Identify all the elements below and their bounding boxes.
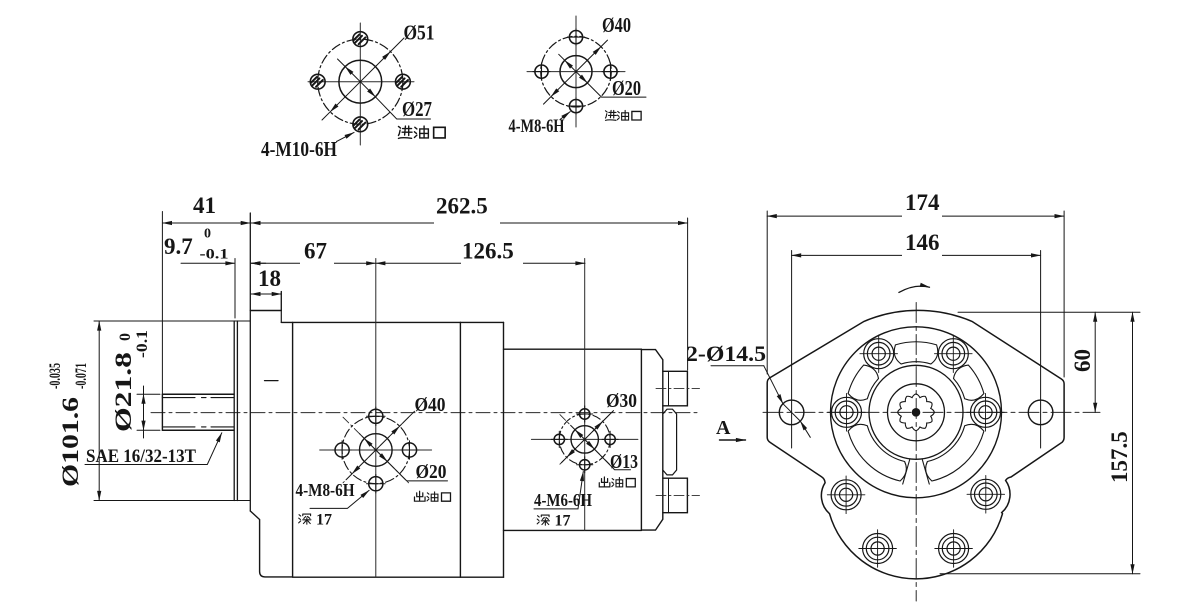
front boss circle xyxy=(869,365,963,459)
dim 146 line xyxy=(792,254,1041,256)
svg-text:4-M6-6H: 4-M6-6H xyxy=(534,490,592,510)
screw S6 bottom-right xyxy=(967,476,1005,514)
port1 port circle Ø20 xyxy=(360,434,393,467)
flange1 bolt hole left xyxy=(310,74,325,89)
flange1 port circle Ø27 xyxy=(339,60,382,103)
svg-text:Ø21.8: Ø21.8 xyxy=(111,352,136,432)
svg-text:60: 60 xyxy=(1070,349,1095,372)
ext lines 174 xyxy=(767,211,1064,377)
dim Ø21.8: extension lines xyxy=(137,394,160,430)
flange1 bolt hole right xyxy=(396,74,411,89)
port2 Ø30 diameter line NE-SW xyxy=(567,421,603,457)
flange2 Ø20 diameter line (NW-SE diagonal) xyxy=(565,60,588,83)
spline leader line xyxy=(85,433,222,465)
flange2 bolt hole top xyxy=(568,29,585,46)
port1 vertical centerline xyxy=(375,259,377,578)
dim text Ø21.8 with tolerance (rotated) xyxy=(111,330,151,432)
svg-text:146: 146 xyxy=(905,230,940,255)
svg-text:4-M8-6H: 4-M8-6H xyxy=(296,480,355,500)
shaft end face xyxy=(161,394,163,430)
mounting plate left face xyxy=(249,213,251,511)
svg-text:262.5: 262.5 xyxy=(436,194,488,219)
mounting plate top edge xyxy=(250,310,281,312)
front bore circle xyxy=(888,384,945,441)
dim 262.5 line xyxy=(251,222,688,224)
port1 label 深 17 xyxy=(299,514,311,524)
svg-text:-0.1: -0.1 xyxy=(134,330,151,358)
port1 Ø40 diameter line NE-SW xyxy=(352,426,400,474)
port2 Ø13 diameter line NW-SE xyxy=(575,430,594,449)
white gaps for dim texts xyxy=(902,208,942,263)
port2 bolt hole top xyxy=(577,406,593,422)
dim 157.5 line xyxy=(1132,312,1134,574)
front flange outline xyxy=(767,310,1064,578)
flange1 bolt hole bottom xyxy=(353,117,368,132)
ext line spigot face (for 9.7) xyxy=(234,259,236,319)
flange2 vertical centerline xyxy=(575,16,577,127)
dim 9.7 right arrow (outside) xyxy=(251,262,266,264)
ext line bottom (157.5) xyxy=(940,573,1140,575)
view A arrow xyxy=(720,439,746,441)
port1 label 出油口 (oil outlet) xyxy=(414,491,450,501)
dim 60 line xyxy=(1094,312,1096,412)
section2 top edge xyxy=(504,348,642,350)
right ear hole xyxy=(1028,400,1053,425)
port1 leader 4-M8-6H xyxy=(310,490,369,508)
body section1 front face xyxy=(292,322,294,577)
flange2 bolt hole bottom xyxy=(568,98,585,115)
flange2 leader 4-M8-6H xyxy=(560,112,570,120)
flange2 Ø40 diameter line (NE-SW diagonal) xyxy=(551,47,601,97)
svg-text:Ø101.6: Ø101.6 xyxy=(58,397,83,487)
svg-text:17: 17 xyxy=(555,513,571,530)
port2 bolt hole right xyxy=(602,431,618,447)
flange2 bolt circle Ø40 (dash-dot) xyxy=(541,36,612,107)
screw S8 lower-right xyxy=(935,530,973,568)
svg-text:41: 41 xyxy=(193,193,216,218)
separator plate left face xyxy=(459,322,461,577)
port1 bolt hole bottom xyxy=(367,474,386,493)
rear cover outline with chamfers xyxy=(641,350,662,530)
svg-text:-0.035: -0.035 xyxy=(47,363,64,389)
shaft spline root lines (dashed portions) xyxy=(162,397,234,399)
rear bottom port tab xyxy=(663,478,688,513)
dim 41 line xyxy=(162,222,250,224)
svg-text:Ø20: Ø20 xyxy=(612,76,641,100)
svg-text:157.5: 157.5 xyxy=(1107,431,1132,483)
mounting plate right face xyxy=(280,292,282,323)
port1 Ø20 diameter line NW-SE xyxy=(364,439,387,462)
body section1 top edge xyxy=(281,321,460,323)
port2 port circle Ø13 xyxy=(571,426,598,453)
svg-text:Ø20: Ø20 xyxy=(416,461,447,483)
port2 bolt hole left xyxy=(551,431,567,447)
flange2 bolt hole left xyxy=(533,63,550,80)
flange1 bolt hole top xyxy=(353,32,368,47)
flange2 label 进油口 (oil inlet) xyxy=(605,110,641,120)
port2 vertical centerline xyxy=(584,259,586,531)
flange1 leader 4-M10-6H xyxy=(337,132,355,141)
svg-text:A: A xyxy=(716,417,731,439)
ext line overall right (262.5) xyxy=(687,218,689,370)
svg-text:Ø13: Ø13 xyxy=(610,451,638,473)
svg-text:67: 67 xyxy=(304,239,327,264)
rear top tab step xyxy=(668,371,670,406)
spigot bottom edge + Ø101.6 extension xyxy=(94,500,250,502)
front horizontal centerline xyxy=(763,411,1100,413)
ext line 18 right xyxy=(280,292,282,311)
port2 leader 4-M6-6H xyxy=(534,472,583,509)
svg-text:Ø51: Ø51 xyxy=(404,21,435,45)
ext line shaft end xyxy=(161,212,163,395)
flange1 horizontal centerline xyxy=(308,81,414,83)
separator plate right face xyxy=(503,322,505,577)
dim 174 line xyxy=(767,215,1064,217)
rear bottom tab step xyxy=(668,478,670,513)
rear cover front face xyxy=(640,349,642,530)
shaft spline profile xyxy=(898,394,935,431)
port2 bolt circle Ø30 (dash-dot) xyxy=(559,414,610,465)
2-Ø14.5 leader underline xyxy=(711,365,764,367)
ext line top right (60/157.5) xyxy=(958,311,1140,313)
svg-text:Ø30: Ø30 xyxy=(606,390,637,412)
body section1 bottom edge xyxy=(293,576,504,578)
dim 18 line xyxy=(251,293,281,295)
dim 9.7 left line with arrow xyxy=(181,262,235,264)
section2 bottom edge xyxy=(504,529,642,531)
port2 horizontal centerline xyxy=(531,438,638,440)
flange2 bolt hole right xyxy=(602,63,619,80)
svg-text:-0.1: -0.1 xyxy=(200,247,229,263)
port1 bolt hole left xyxy=(333,441,352,460)
main axis centerline xyxy=(151,412,700,414)
svg-text:18: 18 xyxy=(258,266,281,291)
left ear hole xyxy=(779,400,804,425)
rear middle boss xyxy=(663,409,677,475)
bottom rib edges xyxy=(903,459,930,484)
dim text Ø101.6 with tolerance (rotated) xyxy=(47,363,90,487)
svg-text:0: 0 xyxy=(204,227,211,242)
spigot top edge + Ø101.6 extension xyxy=(94,320,250,322)
2-Ø14.5 upper arrow xyxy=(764,366,783,404)
svg-text:9.7: 9.7 xyxy=(164,234,193,259)
mounting plate lower foot outline xyxy=(250,511,292,577)
screw S1 right xyxy=(967,394,1005,432)
port2 label 深 17 xyxy=(537,515,549,525)
rear top port tab xyxy=(663,371,688,406)
flange1 Ø27 diameter line (NW-SE diagonal) xyxy=(345,67,375,97)
port2 label 出油口 (oil outlet) xyxy=(599,477,635,487)
rear top tab centerline xyxy=(656,388,700,390)
dim 67 line xyxy=(251,262,376,264)
dim text 157.5 (rotated) xyxy=(1107,431,1132,483)
port1 horizontal centerline xyxy=(320,449,432,451)
flange1 label 进油口 (oil inlet) xyxy=(398,126,445,138)
port1 bolt hole top xyxy=(367,407,386,426)
screw S2 top-right xyxy=(935,335,973,373)
port1 45deg centerlines xyxy=(343,417,409,483)
svg-text:4-M10-6H: 4-M10-6H xyxy=(261,137,337,161)
flange1 Ø51 diameter line (NE-SW diagonal) xyxy=(330,52,390,112)
svg-text:Ø40: Ø40 xyxy=(602,13,631,37)
dim 126.5 line xyxy=(376,262,585,264)
screw S3 top-left xyxy=(860,335,898,373)
2-Ø14.5 lower arrow xyxy=(800,421,810,437)
svg-text:174: 174 xyxy=(905,190,940,215)
screw S4 left xyxy=(828,394,866,432)
ext/centerlines through ear holes (146) xyxy=(792,251,1041,449)
flange1 vertical centerline xyxy=(359,23,361,145)
svg-text:17: 17 xyxy=(316,512,332,529)
flange1 bolt circle Ø51 (dash-dot) xyxy=(318,39,403,124)
svg-text:126.5: 126.5 xyxy=(462,239,514,264)
dim Ø101.6 line with arrows xyxy=(98,321,100,501)
2-Ø14.5 chord through hole xyxy=(783,404,800,421)
svg-text:Ø27: Ø27 xyxy=(402,97,432,121)
screw S5 bottom-left xyxy=(827,476,865,514)
separator plate top edge xyxy=(460,321,503,323)
port2 bolt hole bottom xyxy=(577,457,593,473)
port1 bolt hole right xyxy=(400,441,419,460)
plate break tick xyxy=(265,380,279,382)
dim Ø21.8 line with arrows xyxy=(143,394,145,430)
svg-text:-0.071: -0.071 xyxy=(73,363,90,389)
flange2 port circle Ø20 xyxy=(560,56,592,88)
svg-text:2-Ø14.5: 2-Ø14.5 xyxy=(686,341,766,366)
flange2 horizontal centerline xyxy=(527,71,625,73)
front vertical centerline xyxy=(915,303,917,602)
port1 bolt circle Ø40 (dash-dot) xyxy=(342,416,409,483)
port2 45deg centerlines xyxy=(560,415,610,465)
kidney relief slots xyxy=(848,342,984,481)
rear bottom tab centerline xyxy=(656,494,700,496)
screw S7 lower-left xyxy=(859,530,897,568)
front housing big circle xyxy=(831,327,1002,498)
svg-text:0: 0 xyxy=(117,333,134,341)
svg-text:4-M8-6H: 4-M8-6H xyxy=(509,116,565,137)
shaft spline outer lines xyxy=(162,394,234,430)
svg-text:Ø40: Ø40 xyxy=(415,394,446,416)
pilot spigot front face (double line) xyxy=(234,321,237,501)
dim text 60 (rotated) xyxy=(1070,349,1095,372)
rotation direction arrow xyxy=(899,286,930,292)
shaft center dot xyxy=(912,408,921,417)
white gaps for dim texts xyxy=(300,215,523,271)
